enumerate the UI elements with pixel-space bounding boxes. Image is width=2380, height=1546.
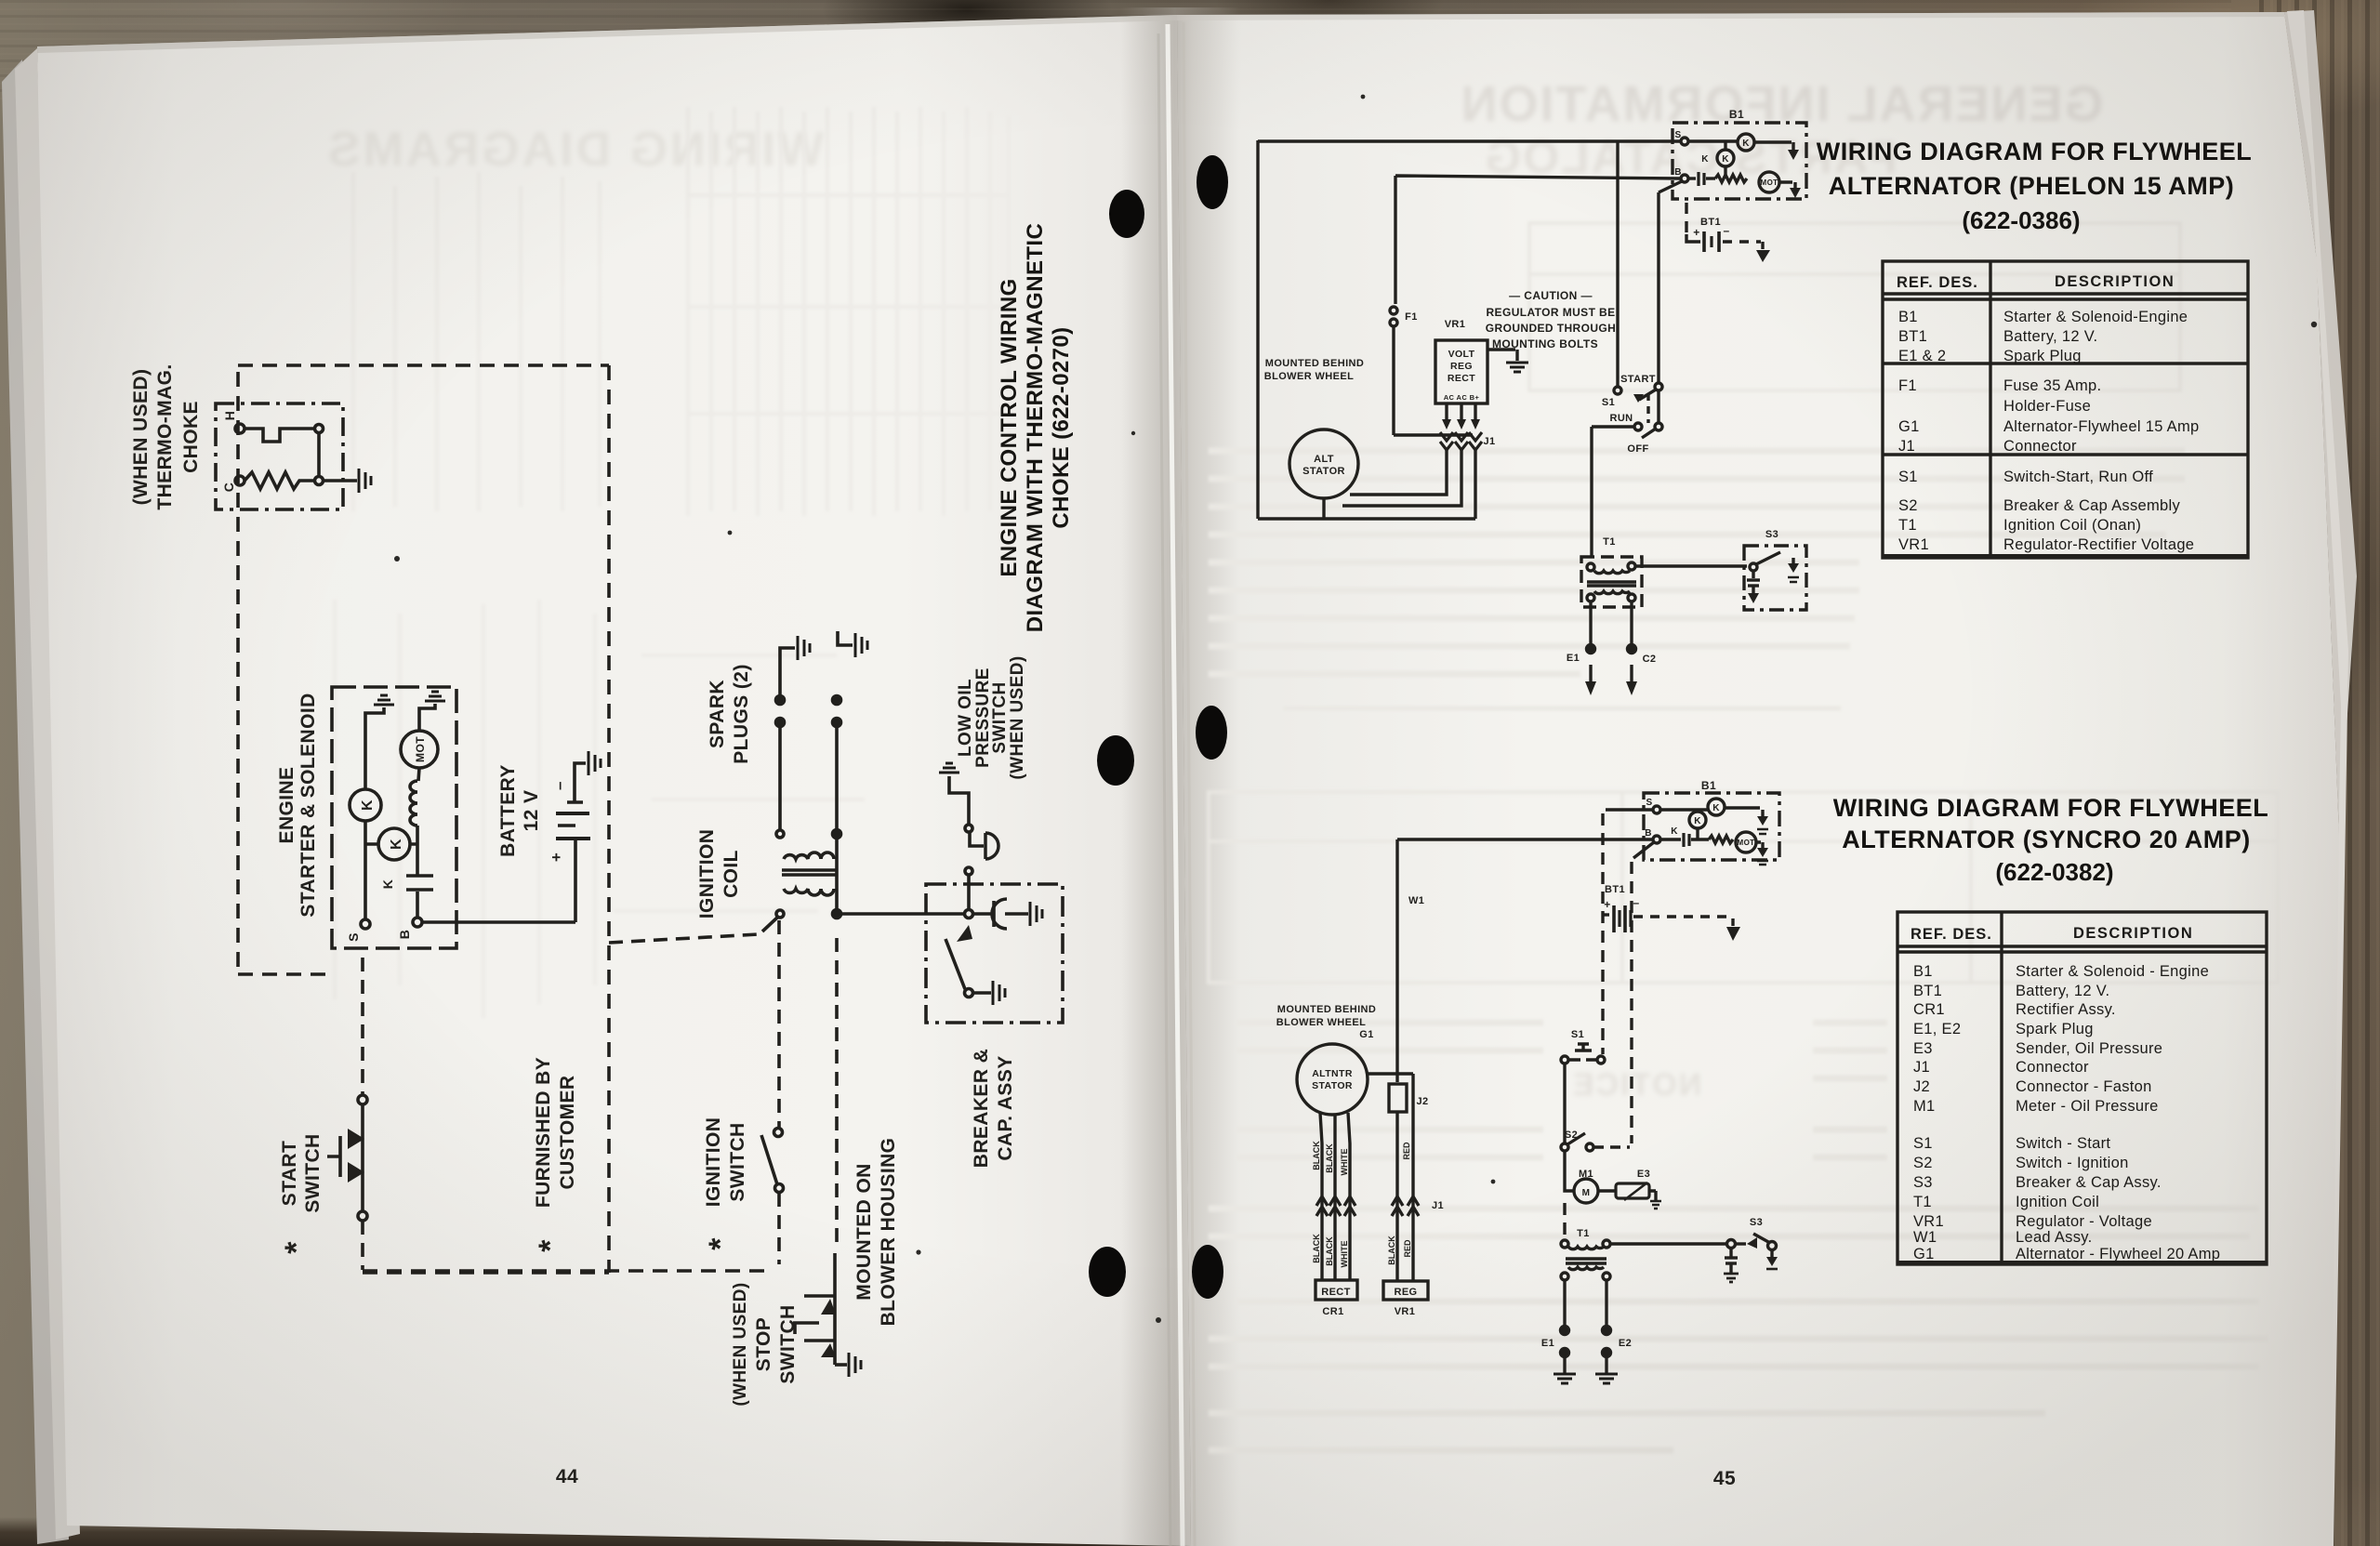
svg-text:Starter & Solenoid - Engine: Starter & Solenoid - Engine	[2016, 963, 2209, 980]
svg-text:SWITCH: SWITCH	[777, 1304, 799, 1383]
svg-text:E3: E3	[1637, 1169, 1650, 1180]
wire T1 to spark plug E1	[1589, 601, 1592, 645]
B1-2 terminal B	[1653, 836, 1660, 843]
fuse F1 holder bottom	[1390, 319, 1397, 326]
left page show-through: faint grid blocks	[335, 107, 1009, 1018]
stop switch stem	[833, 1253, 837, 1365]
left page	[37, 15, 1191, 1546]
wire stator white	[1348, 1113, 1350, 1280]
ignition coil secondary winding	[784, 852, 834, 859]
battery positive lead	[1686, 234, 1700, 242]
svg-text:45: 45	[1713, 1468, 1736, 1489]
ground (oil switch)	[939, 763, 959, 773]
relay coil K	[350, 789, 381, 821]
svg-text:ALTNTR: ALTNTR	[1312, 1068, 1353, 1079]
svg-text:–: –	[1723, 224, 1729, 237]
wire S long run to stator	[1258, 140, 1681, 519]
S1-2 terminal right	[1597, 1056, 1605, 1064]
relay contact K circle	[1717, 150, 1734, 166]
svg-text:STATOR: STATOR	[1302, 466, 1345, 477]
svg-text:COIL: COIL	[721, 850, 742, 898]
wire oil switch diaphragm link	[970, 832, 984, 846]
T1 core	[1587, 582, 1636, 586]
connector J1 chevrons	[1440, 432, 1482, 450]
caution note	[1486, 289, 1616, 350]
subtle shading under top edge of pages	[37, 15, 1177, 53]
wire B mid 2	[1691, 838, 1709, 840]
wire dashed S to S1 pushbutton	[1601, 813, 1604, 1054]
wire relay contact links	[365, 842, 417, 846]
gutter shadow	[1120, 7, 1241, 1546]
svg-text:RED: RED	[1402, 1142, 1411, 1160]
wire battery ground stem	[1761, 242, 1764, 249]
svg-text:MOUNTED BEHIND: MOUNTED BEHIND	[1265, 358, 1364, 369]
stop switch actuator bar	[793, 1323, 819, 1334]
wire stator bottom stub	[1322, 498, 1325, 519]
breaker arm	[945, 939, 965, 989]
svg-text:IGNITION: IGNITION	[703, 1117, 724, 1208]
svg-text:*: *	[703, 1237, 738, 1250]
wire dashed start switch to boundary	[361, 1221, 364, 1270]
contact K bars 2	[1684, 833, 1689, 847]
wire junction to points	[1735, 1242, 1746, 1245]
choke label	[130, 363, 237, 509]
svg-text:(WHEN USED): (WHEN USED)	[731, 1282, 750, 1406]
ground (E1-2)	[1554, 1374, 1576, 1383]
svg-text:RUN: RUN	[1609, 413, 1633, 424]
oil pressure switch terminal upper	[965, 825, 972, 832]
svg-text:Spark Plug: Spark Plug	[2003, 348, 2082, 364]
ignition switch terminal top	[774, 1129, 783, 1137]
wire B long run to fuse F1	[1395, 176, 1681, 304]
wire stator black 2	[1333, 1115, 1336, 1280]
S2 ignition switch	[1565, 1130, 1578, 1141]
svg-text:*: *	[279, 1241, 314, 1254]
T1-2 core	[1566, 1259, 1606, 1263]
wire dashed battery 2 negative	[1633, 915, 1729, 918]
svg-text:ALT: ALT	[1314, 454, 1334, 465]
svg-text:ALTERNATOR (SYNCRO 20 AMP): ALTERNATOR (SYNCRO 20 AMP)	[1842, 826, 2251, 853]
wire color labels	[1312, 1141, 1412, 1268]
svg-text:START: START	[279, 1141, 300, 1206]
start switch actuator bar	[327, 1136, 340, 1177]
alternator stator G1-2	[1297, 1044, 1368, 1115]
svg-text:S3: S3	[1913, 1174, 1933, 1191]
S3 capacitor plate 2	[1748, 584, 1759, 587]
svg-text:Lead Assy.: Lead Assy.	[2016, 1229, 2093, 1246]
svg-text:+: +	[1693, 226, 1699, 239]
coil secondary terminal	[776, 830, 784, 838]
svg-text:DESCRIPTION: DESCRIPTION	[2073, 925, 2193, 942]
wire dashed B1 to battery	[1685, 203, 1687, 234]
stop switch contact 2	[821, 1343, 836, 1357]
svg-text:WIRING DIAGRAM FOR FLYWHEEL: WIRING DIAGRAM FOR FLYWHEEL	[1833, 794, 2268, 822]
svg-text:S1: S1	[1898, 469, 1918, 485]
svg-text:BLOWER HOUSING: BLOWER HOUSING	[878, 1138, 899, 1327]
battery 2 plate long 1	[1612, 905, 1616, 932]
spark plug E1 dot	[1587, 645, 1595, 654]
battery plate short	[1710, 236, 1712, 247]
thermo-mag choke box	[216, 403, 343, 509]
svg-text:OFF: OFF	[1627, 443, 1648, 455]
wire S3 capacitor stem	[1752, 571, 1754, 578]
svg-text:B1: B1	[1898, 309, 1918, 325]
wire J2 to REG	[1395, 1112, 1398, 1280]
ground bars (motor 2)	[1757, 861, 1768, 865]
wire S path 2	[1660, 808, 1708, 811]
wire breaker to ground	[973, 991, 991, 995]
wire coil to ground arrow	[1754, 142, 1793, 150]
svg-text:Starter & Solenoid-Engine: Starter & Solenoid-Engine	[2003, 309, 2188, 325]
wire dashed to stop switch	[835, 938, 839, 1249]
svg-text:Battery, 12 V.: Battery, 12 V.	[2016, 983, 2109, 999]
S2 terminal right	[1586, 1143, 1593, 1151]
svg-text:Ignition Coil: Ignition Coil	[2016, 1194, 2099, 1210]
breaker S3 box	[1744, 546, 1806, 610]
svg-text:Holder-Fuse: Holder-Fuse	[2003, 398, 2091, 415]
wire stator lead 2	[1342, 448, 1461, 506]
start switch terminal top	[358, 1095, 367, 1104]
S3 arm	[1756, 552, 1780, 564]
wire T1 to S3	[1635, 564, 1747, 567]
connector J1-2 chevrons	[1316, 1196, 1419, 1216]
capacitor curved plate	[992, 899, 1007, 929]
right page show-through: paragraph lines upper	[1209, 451, 2185, 708]
ignition coil primary winding	[784, 889, 834, 895]
S3-2 moving terminal	[1768, 1242, 1777, 1250]
ground bars (S3 contact)	[1788, 577, 1799, 582]
svg-text:STOP: STOP	[753, 1317, 774, 1371]
svg-text:+: +	[548, 852, 565, 862]
svg-text:J2: J2	[1913, 1078, 1930, 1095]
svg-text:E1 & 2: E1 & 2	[1898, 348, 1946, 364]
svg-text:B: B	[397, 930, 412, 940]
svg-text:T1: T1	[1913, 1194, 1932, 1210]
svg-text:WIRING DIAGRAM FOR FLYWHEEL: WIRING DIAGRAM FOR FLYWHEEL	[1817, 138, 2252, 165]
svg-text:REG: REG	[1450, 361, 1473, 372]
wire dashed S2 right	[1593, 1145, 1630, 1148]
ground arrow (S3 contact)	[1788, 563, 1799, 573]
svg-text:–: –	[1633, 896, 1639, 909]
punch hole right 3	[1192, 1245, 1223, 1299]
specks	[394, 95, 2317, 1323]
svg-text:K: K	[1694, 816, 1701, 826]
wire dashed coil primary to ignition switch	[777, 920, 781, 1128]
wire junction to oil switch	[967, 875, 971, 909]
T1 secondary terminal right	[1628, 594, 1635, 601]
battery plate long 2	[1717, 231, 1721, 252]
svg-text:IGNITION: IGNITION	[696, 829, 718, 919]
punch hole left 2	[1097, 735, 1134, 786]
battery 2 positive lead	[1603, 913, 1609, 916]
T1-2 primary terminal left	[1561, 1240, 1568, 1248]
arrow output AC2	[1457, 419, 1466, 429]
S1 terminal START	[1614, 387, 1621, 394]
wire W1 lead assy	[1397, 839, 1653, 1082]
svg-text:CHOKE: CHOKE	[180, 401, 202, 473]
ground arrow (S3 cap)	[1748, 593, 1759, 603]
svg-text:S1: S1	[1602, 397, 1615, 408]
page number 45	[1713, 1468, 1736, 1489]
svg-text:M1: M1	[1579, 1169, 1593, 1180]
rectifier assy CR1 box	[1316, 1280, 1357, 1300]
wire VR1 to ground	[1487, 350, 1517, 361]
svg-text:(622-0382): (622-0382)	[1995, 858, 2113, 886]
S1 arm upper	[1639, 390, 1656, 400]
svg-text:BT1: BT1	[1700, 217, 1721, 228]
svg-text:T1: T1	[1898, 517, 1917, 534]
svg-text:Ignition Coil (Onan): Ignition Coil (Onan)	[2003, 517, 2141, 534]
S3-2 capacitor plate 1	[1725, 1256, 1738, 1259]
S1 common terminal	[1655, 383, 1662, 390]
ground (E2)	[1595, 1374, 1618, 1383]
svg-text:J1: J1	[1483, 436, 1495, 447]
svg-text:ALTERNATOR (PHELON 15 AMP): ALTERNATOR (PHELON 15 AMP)	[1829, 172, 2235, 200]
T1-2 primary winding	[1568, 1247, 1604, 1249]
wire fuse to B+ lead	[1394, 326, 1473, 435]
svg-text:ENGINE CONTROL WIRING: ENGINE CONTROL WIRING	[997, 278, 1022, 576]
wire E2 to ground	[1605, 1356, 1607, 1373]
ground arrow (motor)	[1790, 188, 1801, 198]
svg-text:DESCRIPTION: DESCRIPTION	[2055, 273, 2175, 290]
S1 lower common terminal	[1655, 423, 1662, 430]
spark plug 1 gap dots	[776, 696, 785, 705]
wire dashed battery negative	[1723, 240, 1761, 243]
svg-text:W1: W1	[1913, 1229, 1937, 1246]
svg-text:DIAGRAM WITH THERMO-MAGNETIC: DIAGRAM WITH THERMO-MAGNETIC	[1023, 223, 1048, 632]
svg-text:Battery, 12 V.: Battery, 12 V.	[2003, 328, 2097, 345]
svg-text:MOUNTING BOLTS: MOUNTING BOLTS	[1492, 337, 1598, 350]
choke terminal C	[235, 476, 245, 485]
svg-text:BREAKER &: BREAKER &	[971, 1049, 992, 1168]
wire S3-2 cap to ground	[1729, 1263, 1732, 1273]
title 1	[1817, 138, 2252, 234]
svg-text:K: K	[389, 839, 404, 850]
ground bars (coil 2)	[1757, 829, 1768, 834]
svg-text:WHITE: WHITE	[1340, 1241, 1349, 1268]
B1 starter solenoid box	[1673, 123, 1806, 199]
svg-text:B1: B1	[1729, 108, 1744, 121]
arrow output AC1	[1442, 419, 1451, 429]
wire B path left	[1688, 177, 1696, 179]
spark plug C2 arrow stem	[1630, 665, 1633, 683]
S2 terminal left	[1561, 1143, 1568, 1151]
svg-text:ENGINE: ENGINE	[276, 767, 297, 844]
svg-text:VR1: VR1	[1445, 319, 1466, 330]
alternator stator G1	[1289, 429, 1358, 498]
ground (E3)	[1650, 1201, 1661, 1209]
voltage regulator VR1	[1435, 340, 1487, 403]
wire S terminal to relay coil and ground	[365, 707, 384, 919]
choke resistor	[245, 472, 314, 489]
wire spark plug 2 to ground	[838, 631, 853, 645]
wire plug 2 / coil right leg	[835, 727, 839, 914]
relay coil K circle	[1738, 134, 1754, 151]
relay coil K circle 2	[1708, 799, 1725, 815]
S1 terminal RUN	[1634, 423, 1642, 430]
oil pressure sender E3	[1616, 1183, 1649, 1198]
S3-2 junction terminal	[1727, 1240, 1736, 1249]
spark plug E2 dot upper	[1603, 1327, 1611, 1335]
svg-text:BATTERY: BATTERY	[497, 764, 519, 857]
start switch contact 2	[348, 1162, 364, 1183]
svg-text:— CAUTION —: — CAUTION —	[1509, 289, 1593, 302]
wire dashed ignition switch down	[777, 1193, 781, 1264]
wire VR1 outputs AC AC B+	[1447, 403, 1475, 419]
S1 pushbutton	[1571, 1029, 1584, 1040]
starter series winding 2	[1709, 836, 1733, 843]
T1 primary winding	[1594, 571, 1630, 574]
svg-text:BT1: BT1	[1898, 328, 1927, 345]
svg-text:STARTER & SOLENOID: STARTER & SOLENOID	[297, 693, 319, 917]
right page show-through: NOTICE + lower paragraphs	[1571, 1067, 1701, 1103]
contact K bars on B wire	[406, 876, 433, 890]
ground arrow (S3-2)	[1766, 1257, 1778, 1266]
wire S1 to S2	[1563, 1064, 1566, 1143]
ground (starter motor)	[425, 692, 445, 701]
wire link to contact K	[1724, 142, 1726, 150]
fuse F1 holder top	[1390, 307, 1397, 314]
svg-text:LOW OIL: LOW OIL	[956, 679, 975, 757]
ground (S3-2 cap)	[1724, 1274, 1739, 1282]
right page show-through: faint tables	[1209, 223, 2278, 983]
svg-text:MOT: MOT	[414, 736, 427, 762]
T1 primary terminal right	[1628, 562, 1635, 570]
wire motor to ground	[418, 704, 435, 781]
B1 terminal S (pin S)	[1681, 138, 1688, 145]
ground (spark plug 2)	[855, 633, 867, 657]
svg-text:S2: S2	[1913, 1155, 1933, 1171]
choke junction circles	[315, 425, 324, 433]
svg-text:J1: J1	[1913, 1059, 1930, 1076]
wire E1-2 to ground	[1563, 1356, 1566, 1373]
svg-text:Switch - Ignition: Switch - Ignition	[2016, 1155, 2129, 1171]
svg-text:S2: S2	[1898, 497, 1918, 514]
svg-text:BLACK: BLACK	[1312, 1234, 1321, 1263]
node breaker junction	[965, 910, 973, 918]
svg-text:K: K	[1722, 154, 1729, 165]
T1 secondary terminal left	[1587, 594, 1594, 601]
svg-text:S1: S1	[1571, 1029, 1584, 1040]
svg-text:K: K	[1712, 803, 1720, 813]
svg-text:MOT: MOT	[1738, 839, 1755, 847]
battery 2 plate short 1	[1618, 910, 1620, 927]
svg-text:Regulator-Rectifier Voltage: Regulator-Rectifier Voltage	[2003, 536, 2194, 553]
svg-text:S: S	[1646, 798, 1652, 808]
solenoid terminal B	[413, 918, 422, 927]
T1 secondary winding	[1594, 591, 1630, 594]
S1 arm lower (OFF)	[1642, 429, 1656, 438]
svg-text:BLACK: BLACK	[1312, 1141, 1321, 1170]
wire stop switch to ground	[835, 1363, 847, 1367]
svg-text:STATOR: STATOR	[1312, 1080, 1353, 1091]
wire oil switch to ground	[949, 776, 969, 825]
ignition switch terminal bottom	[775, 1184, 784, 1193]
stop switch contact 1	[821, 1299, 836, 1315]
ground (breaker)	[993, 981, 1005, 1005]
S1-2 terminal left	[1561, 1056, 1568, 1064]
wire start switch stem	[361, 1104, 364, 1211]
svg-text:MOUNTED ON: MOUNTED ON	[853, 1163, 875, 1301]
ground (relay coil)	[374, 695, 394, 705]
wire down to S1 START	[1616, 141, 1619, 386]
ground (stop switch)	[849, 1353, 861, 1377]
svg-text:CAP. ASSY: CAP. ASSY	[995, 1055, 1016, 1160]
ignition coil T1 box	[1581, 557, 1642, 607]
svg-text:S3: S3	[1765, 529, 1778, 540]
punch hole left 1	[1109, 190, 1144, 238]
S1 linkage dashed	[1646, 393, 1649, 423]
wire capacitor to ground	[1005, 912, 1028, 916]
wire B to switch common	[1659, 181, 1682, 383]
S3-2 arm	[1753, 1234, 1770, 1243]
wire dashed M1 to T1-2	[1563, 1203, 1566, 1240]
svg-text:Spark Plug: Spark Plug	[2016, 1021, 2094, 1037]
svg-text:B1: B1	[1913, 963, 1933, 980]
svg-text:VR1: VR1	[1898, 536, 1929, 553]
svg-text:W1: W1	[1408, 895, 1424, 906]
svg-text:S: S	[346, 932, 361, 942]
punch hole right 2	[1196, 706, 1227, 760]
spark plug C2 dot	[1628, 645, 1636, 654]
starter series coil	[410, 781, 417, 826]
svg-text:+: +	[1604, 898, 1610, 911]
svg-text:GENERAL INFORMATION: GENERAL INFORMATION	[1460, 76, 2104, 132]
start switch contact 1	[348, 1129, 364, 1149]
starter motor MOT	[1759, 172, 1779, 192]
ground bar (S3-2)	[1766, 1268, 1778, 1271]
svg-text:F1: F1	[1898, 377, 1917, 394]
wire S2 to M1	[1565, 1151, 1573, 1191]
wire to choke ground	[323, 479, 357, 482]
wire S1 common down	[1657, 390, 1659, 423]
battery 2 plate short 2	[1629, 910, 1632, 927]
T1 ignition coil 2	[1577, 1228, 1590, 1239]
svg-text:Fuse 35 Amp.: Fuse 35 Amp.	[2003, 377, 2101, 394]
svg-text:NOTICE: NOTICE	[1571, 1067, 1701, 1103]
svg-text:12 V: 12 V	[521, 790, 542, 832]
svg-text:C2: C2	[1643, 654, 1657, 665]
punch hole right 1	[1197, 155, 1228, 209]
choke heater element	[245, 429, 314, 442]
starter series winding	[1715, 175, 1747, 182]
S3-2 points contact	[1747, 1237, 1757, 1249]
svg-text:BLACK: BLACK	[1325, 1143, 1334, 1173]
svg-text:Connector: Connector	[2003, 438, 2077, 455]
wire motor to ground arrow	[1779, 182, 1795, 188]
wire T1-2 to S3-2	[1610, 1242, 1727, 1245]
wire B terminal to starter	[416, 826, 419, 918]
svg-text:Breaker & Cap Assy.: Breaker & Cap Assy.	[2016, 1174, 2162, 1191]
T1-2 secondary terminal left	[1561, 1273, 1568, 1280]
oil pressure switch terminal lower	[965, 867, 972, 875]
wire stator lead 3	[1474, 448, 1476, 519]
svg-text:PLUGS (2): PLUGS (2)	[731, 664, 752, 763]
svg-text:BLOWER WHEEL: BLOWER WHEEL	[1276, 1017, 1366, 1028]
arrow (E1)	[1585, 681, 1596, 695]
svg-text:Breaker & Cap Assembly: Breaker & Cap Assembly	[2003, 497, 2180, 514]
svg-text:(WHEN USED): (WHEN USED)	[1008, 655, 1027, 779]
wire S3 contact stem	[1792, 558, 1794, 563]
ground (spark plug 1)	[798, 636, 810, 660]
spark plug E2 dot lower	[1603, 1349, 1611, 1357]
svg-text:SPARK: SPARK	[707, 680, 728, 748]
svg-text:START: START	[1620, 374, 1656, 385]
ignition switch arm	[761, 1135, 777, 1184]
svg-text:G1: G1	[1898, 418, 1920, 435]
svg-text:J1: J1	[1432, 1200, 1444, 1211]
svg-text:WHITE: WHITE	[1340, 1149, 1349, 1176]
